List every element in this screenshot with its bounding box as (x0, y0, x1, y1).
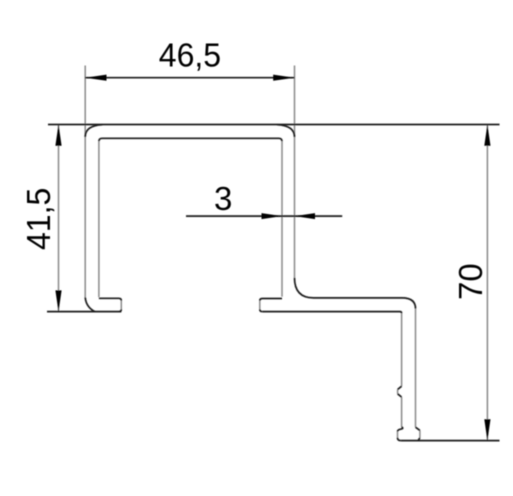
svg-text:70: 70 (452, 263, 489, 300)
svg-text:46,5: 46,5 (159, 36, 221, 73)
svg-text:41,5: 41,5 (20, 188, 57, 250)
svg-text:3: 3 (214, 180, 232, 217)
